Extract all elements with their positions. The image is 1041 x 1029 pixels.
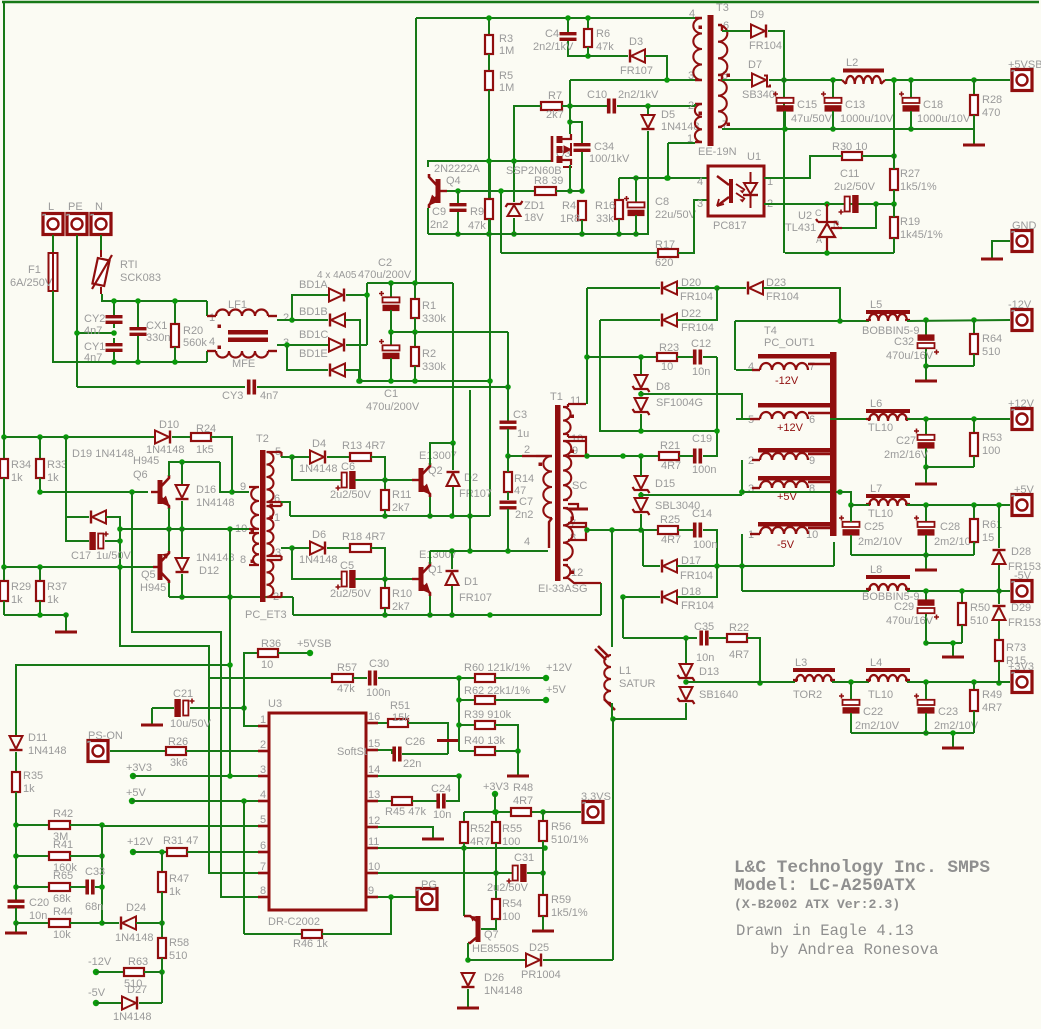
net stub +12V R60 <box>543 675 549 681</box>
svg-text:R16: R16 <box>595 200 615 212</box>
svg-text:-5V: -5V <box>88 987 106 999</box>
resistor R33 1k <box>39 437 41 459</box>
wire drive branch x=501 to R17 <box>500 191 502 253</box>
svg-text:510/1%: 510/1% <box>551 834 589 846</box>
connector -12V <box>1012 310 1032 331</box>
svg-text:4: 4 <box>260 789 266 801</box>
svg-text:L3: L3 <box>795 657 807 669</box>
wire ladder left column <box>15 825 17 900</box>
resistor R23 10 <box>657 353 677 361</box>
resistor R50 510 <box>961 591 963 603</box>
resistor R55 100 <box>495 812 497 822</box>
svg-text:R40 13k: R40 13k <box>464 735 505 747</box>
svg-text:1u: 1u <box>517 428 529 440</box>
svg-text:R2: R2 <box>422 348 436 360</box>
svg-text:2u2/50V: 2u2/50V <box>330 588 372 600</box>
svg-text:2: 2 <box>283 312 289 324</box>
svg-text:68n: 68n <box>85 901 103 913</box>
wire HV+ top rail <box>367 282 453 284</box>
svg-text:FR104: FR104 <box>681 600 714 612</box>
svg-text:SB340: SB340 <box>742 89 775 101</box>
svg-text:T4: T4 <box>764 325 777 337</box>
svg-text:R19: R19 <box>900 216 920 228</box>
svg-text:PE: PE <box>68 201 83 213</box>
connector +5V <box>1012 495 1032 516</box>
svg-text:EI-33ASG: EI-33ASG <box>538 583 588 595</box>
wire -5V bus to L8 <box>742 590 869 592</box>
resistor R16 33k <box>618 178 620 200</box>
resistor R2 330k <box>414 332 416 347</box>
svg-text:4R7: 4R7 <box>661 460 681 472</box>
svg-text:R51: R51 <box>390 700 410 712</box>
svg-text:1: 1 <box>209 312 215 324</box>
svg-text:1: 1 <box>274 512 280 524</box>
T1 pins 9/10 bracket <box>568 437 586 456</box>
svg-text:Model: LC-A250ATX: Model: LC-A250ATX <box>734 876 916 896</box>
svg-text:R6: R6 <box>596 28 610 40</box>
resistor R60 121k/1% <box>475 674 495 682</box>
fuse F1 6A/250V <box>49 253 58 291</box>
svg-text:R60 121k/1%: R60 121k/1% <box>464 662 530 674</box>
resistor R44 10k <box>13 920 19 926</box>
wire Q5 collector <box>168 583 170 597</box>
svg-text:10: 10 <box>661 361 673 373</box>
wire R56/C31 column to R59 <box>542 848 544 895</box>
svg-text:FR107: FR107 <box>620 65 653 77</box>
svg-text:R21: R21 <box>660 440 680 452</box>
svg-text:4: 4 <box>689 8 695 20</box>
diode D20 FR104 <box>663 282 677 295</box>
svg-text:(X-B2002 ATX Ver:2.3): (X-B2002 ATX Ver:2.3) <box>734 897 900 912</box>
svg-text:TL10: TL10 <box>868 689 893 701</box>
diode D12 1N4148 <box>181 529 183 558</box>
svg-text:-5V: -5V <box>777 539 795 551</box>
wire Q6 emitter <box>168 508 170 529</box>
wire +12V stub to R31 <box>133 851 167 853</box>
wire HV snubber column x=453 <box>452 283 454 443</box>
resistor R45 47k <box>378 800 392 802</box>
svg-text:SF1004G: SF1004G <box>656 397 703 409</box>
svg-text:-12V: -12V <box>775 375 799 387</box>
resistor R9 47k <box>488 161 490 199</box>
svg-text:R7: R7 <box>548 90 562 102</box>
resistor R34 1k <box>3 437 5 459</box>
svg-text:FR104: FR104 <box>680 570 713 582</box>
wire Q5 emitter up <box>168 529 170 551</box>
diode D26 1N4148 <box>462 973 475 986</box>
svg-text:R56: R56 <box>551 821 571 833</box>
svg-text:D15: D15 <box>655 478 675 490</box>
T1 pins 7/8 bracket <box>568 523 586 540</box>
wire C5 to base <box>355 578 416 580</box>
wire D13 mid to L3 bus <box>686 681 795 683</box>
svg-text:R27: R27 <box>900 168 920 180</box>
svg-text:L4: L4 <box>870 657 882 669</box>
wire U3 pin9 to PG <box>378 896 416 898</box>
svg-text:R55: R55 <box>502 823 522 835</box>
svg-text:Q5: Q5 <box>141 569 156 581</box>
svg-text:4R7: 4R7 <box>729 649 749 661</box>
svg-text:R18 4R7: R18 4R7 <box>342 531 385 543</box>
svg-text:R59: R59 <box>551 894 571 906</box>
wire L fuse to bottom filter rail <box>53 291 207 362</box>
capacitor C10 2n2/1kV <box>607 99 611 114</box>
wire R7 left to gate node <box>514 106 541 161</box>
diode D18 FR104 <box>623 596 660 598</box>
wire Q6 base column to U3 pin8 <box>132 492 270 897</box>
wire U3 pin14 to C24 <box>378 775 459 777</box>
svg-text:2: 2 <box>260 739 266 751</box>
wire R36 to +5VSB stub <box>278 652 309 654</box>
svg-text:R42: R42 <box>53 808 73 820</box>
svg-text:SB1640: SB1640 <box>699 689 738 701</box>
wire R8 to source/C34/R4 <box>556 190 582 192</box>
wire C27/R53 gnd <box>926 466 974 468</box>
wire T2 pin3 node <box>281 547 292 549</box>
wire Q4 base <box>447 190 581 192</box>
wire VSB ground rail <box>785 128 974 130</box>
resistor R64 510 <box>973 320 975 334</box>
wire +12V bus to L6 <box>830 418 867 420</box>
svg-text:R23: R23 <box>659 342 679 354</box>
svg-text:510: 510 <box>169 950 187 962</box>
svg-text:1k: 1k <box>169 886 181 898</box>
svg-text:C17: C17 <box>71 550 91 562</box>
ground C32 <box>925 366 927 380</box>
svg-text:R54: R54 <box>502 898 522 910</box>
svg-text:+3V3: +3V3 <box>126 762 152 774</box>
svg-text:R48: R48 <box>513 782 533 794</box>
capacitor C26 22n <box>378 750 392 754</box>
svg-text:2: 2 <box>688 100 694 112</box>
wire R18 to Q1 base node <box>371 548 385 579</box>
svg-text:C33: C33 <box>85 866 105 878</box>
svg-text:510: 510 <box>970 615 988 627</box>
svg-text:2m2/10V: 2m2/10V <box>934 720 979 732</box>
svg-text:10n: 10n <box>692 366 710 378</box>
svg-text:GND: GND <box>1012 220 1037 232</box>
svg-text:C30: C30 <box>369 658 389 670</box>
svg-text:CX1: CX1 <box>146 320 167 332</box>
svg-text:C24: C24 <box>431 783 451 795</box>
svg-text:R29: R29 <box>11 581 31 593</box>
svg-text:R35: R35 <box>23 770 43 782</box>
wire C15 column <box>783 31 785 253</box>
diode D16 1N4148 <box>181 462 183 485</box>
resistor R73 R15 <box>995 640 1003 661</box>
net stub +3V3 pin3 <box>130 773 136 779</box>
svg-text:1R8: 1R8 <box>560 213 580 225</box>
zener ZD1 18V <box>508 205 521 216</box>
wire halfbridge mid column x=470 <box>469 390 471 551</box>
wire U1 pin1 <box>764 156 816 178</box>
svg-text:R13 4R7: R13 4R7 <box>342 440 385 452</box>
capacitor C14 100n <box>678 529 694 531</box>
svg-text:47k: 47k <box>468 220 486 232</box>
svg-text:FR104: FR104 <box>766 291 799 303</box>
svg-text:330k: 330k <box>422 361 446 373</box>
svg-text:D12: D12 <box>199 565 219 577</box>
capacitor C11 2u2/50V <box>845 197 850 212</box>
svg-text:C23: C23 <box>938 706 958 718</box>
wire U1 pin2 bus <box>764 203 894 205</box>
resistor R30 10 <box>842 152 862 160</box>
svg-text:FR107: FR107 <box>459 488 492 500</box>
svg-text:C25: C25 <box>864 521 884 533</box>
svg-text:1k45/1%: 1k45/1% <box>900 229 943 241</box>
resistor R52 4R7 <box>463 812 465 822</box>
diode D24 1N4148 <box>102 922 119 924</box>
svg-text:R28: R28 <box>982 94 1002 106</box>
svg-text:C26: C26 <box>405 736 425 748</box>
svg-text:BD1E: BD1E <box>299 348 328 360</box>
wire left HV- bus <box>3 2 5 615</box>
wire T2 pin2 rail <box>169 596 293 598</box>
svg-text:L1: L1 <box>619 665 631 677</box>
wire Q1 bottom rail <box>293 614 601 616</box>
svg-text:C5: C5 <box>340 560 354 572</box>
svg-text:R26: R26 <box>168 736 188 748</box>
net stub +3V3 sense <box>492 791 498 797</box>
svg-text:PC_ET3: PC_ET3 <box>245 609 287 621</box>
svg-text:10u/50V: 10u/50V <box>170 718 212 730</box>
svg-text:14: 14 <box>368 764 380 776</box>
wire GND pad <box>992 241 1010 258</box>
diode D17 FR104 <box>663 560 677 573</box>
svg-text:-12V: -12V <box>1008 299 1032 311</box>
svg-text:1k5/1%: 1k5/1% <box>900 181 937 193</box>
svg-text:2n2/1kV: 2n2/1kV <box>533 41 574 53</box>
resistor R25 4R7 <box>658 526 678 534</box>
svg-text:C28: C28 <box>940 521 960 533</box>
svg-text:2u2/50V: 2u2/50V <box>487 882 529 894</box>
svg-text:FR104: FR104 <box>680 291 713 303</box>
svg-text:C12: C12 <box>691 338 711 350</box>
connector N <box>91 214 111 235</box>
svg-text:L: L <box>48 201 54 213</box>
wire R25 bus y=530 <box>587 529 658 531</box>
svg-text:1N4148: 1N4148 <box>661 121 700 133</box>
svg-text:D22: D22 <box>681 308 701 320</box>
ground R51 <box>437 739 459 742</box>
wire D15 top column <box>640 456 642 476</box>
capacitor C23 2m2/10V <box>925 682 927 700</box>
diode D6 1N4148 <box>292 547 310 549</box>
svg-text:SCK083: SCK083 <box>120 272 161 284</box>
svg-text:U1: U1 <box>747 151 761 163</box>
svg-text:C27: C27 <box>896 435 916 447</box>
wire T3 pin6 to D9 <box>722 30 751 32</box>
svg-text:10n: 10n <box>433 809 451 821</box>
svg-text:D24: D24 <box>126 902 146 914</box>
wire D22 snubber loop <box>600 320 717 431</box>
svg-text:R33: R33 <box>47 459 67 471</box>
resistor R49 4R7 <box>973 682 975 690</box>
svg-text:1N4148: 1N4148 <box>299 463 338 475</box>
svg-text:C8: C8 <box>655 196 669 208</box>
svg-text:L6: L6 <box>870 398 882 410</box>
svg-text:R1: R1 <box>422 300 436 312</box>
svg-text:C2: C2 <box>378 257 392 269</box>
svg-text:C15: C15 <box>797 99 817 111</box>
svg-text:3: 3 <box>275 547 281 559</box>
wire pin9/10 to R21 bus <box>584 453 590 459</box>
resistor R21 4R7 <box>659 452 679 460</box>
svg-text:+5V: +5V <box>126 787 147 799</box>
svg-text:560k: 560k <box>183 337 207 349</box>
wire Q5 base rail y=567 <box>4 566 153 568</box>
capacitor C8 22u/50V <box>635 178 637 202</box>
svg-text:R3: R3 <box>499 33 513 45</box>
capacitor C13 1000u/10V <box>832 80 834 97</box>
resistor R7 2k7 <box>541 102 562 110</box>
connector L <box>43 214 63 235</box>
resistor R48 4R7 <box>511 808 531 816</box>
resistor R39 910k <box>459 724 475 726</box>
wire D20 bus <box>587 287 660 289</box>
svg-text:2k7: 2k7 <box>392 502 410 514</box>
wire U2/R19 bottom <box>785 252 894 254</box>
svg-text:6A/250V: 6A/250V <box>10 277 53 289</box>
wire Q6 collector <box>169 462 220 476</box>
wire R21 bus y=456 <box>587 455 659 457</box>
resistor R4 1R8 <box>578 201 586 220</box>
svg-text:D19 1N4148: D19 1N4148 <box>72 448 134 460</box>
svg-text:15k: 15k <box>392 712 410 724</box>
diode D22 FR104 <box>600 319 660 321</box>
svg-text:C20: C20 <box>29 897 49 909</box>
svg-text:1N4148: 1N4148 <box>113 1011 152 1023</box>
svg-text:Q6: Q6 <box>133 469 148 481</box>
svg-text:R34: R34 <box>11 459 31 471</box>
svg-text:22n: 22n <box>403 758 421 770</box>
svg-text:15: 15 <box>368 738 380 750</box>
ground VSB <box>963 144 985 147</box>
svg-text:R4: R4 <box>562 200 576 212</box>
capacitor C24 10n <box>412 800 437 802</box>
svg-text:10: 10 <box>368 861 380 873</box>
svg-text:6: 6 <box>809 414 815 426</box>
svg-text:4R7: 4R7 <box>470 836 490 848</box>
svg-text:-12V: -12V <box>88 956 112 968</box>
svg-text:R49: R49 <box>982 689 1002 701</box>
svg-text:+5V: +5V <box>1014 484 1035 496</box>
wire T1 pin11 to D20 bus <box>586 288 588 404</box>
svg-text:R37: R37 <box>47 581 67 593</box>
svg-text:L8: L8 <box>870 564 882 576</box>
wire R63 to D27 <box>161 972 163 1003</box>
capacitor C18 1000u/10V <box>910 80 912 97</box>
svg-text:2m2/10V: 2m2/10V <box>858 536 903 548</box>
svg-text:D13: D13 <box>699 666 719 678</box>
svg-text:12: 12 <box>368 815 380 827</box>
svg-text:PR1004: PR1004 <box>521 969 561 981</box>
svg-text:HE8550S: HE8550S <box>472 943 519 955</box>
svg-text:R39 910k: R39 910k <box>464 709 512 721</box>
svg-text:620: 620 <box>655 257 673 269</box>
resistor R59 1k5/1% <box>539 895 547 916</box>
svg-text:-5V: -5V <box>1014 570 1032 582</box>
wire T4 pin1 to -5V rect bus <box>741 534 743 591</box>
svg-text:PS-ON: PS-ON <box>88 730 123 742</box>
svg-text:3.3VS: 3.3VS <box>581 791 611 803</box>
svg-text:R17: R17 <box>655 239 675 251</box>
resistor R51 15k <box>378 722 388 724</box>
svg-text:4n7: 4n7 <box>260 390 278 402</box>
svg-text:1000u/10V: 1000u/10V <box>917 113 971 125</box>
svg-text:10: 10 <box>571 433 583 445</box>
svg-text:TL10: TL10 <box>868 508 893 520</box>
wire D19 column to U3 pin7 <box>120 567 270 873</box>
svg-text:47k: 47k <box>596 41 614 53</box>
net stub -5V <box>93 1000 99 1006</box>
svg-text:D4: D4 <box>312 438 326 450</box>
diode D1 FR107 <box>451 551 453 569</box>
wire R7 right to C10 <box>562 105 608 107</box>
wire pin2 to bottom rail <box>292 597 294 615</box>
wire T2 pin5 node <box>281 456 292 458</box>
wire pin10 column down <box>229 529 231 597</box>
svg-text:R64: R64 <box>982 333 1002 345</box>
svg-text:D8: D8 <box>656 381 670 393</box>
svg-text:4R7: 4R7 <box>982 702 1002 714</box>
svg-text:C: C <box>815 208 822 218</box>
svg-text:BD1C: BD1C <box>299 329 328 341</box>
svg-text:1k: 1k <box>11 472 23 484</box>
svg-text:11: 11 <box>570 395 581 407</box>
wire HV mid rail <box>391 331 508 333</box>
wire +5V gnd rail <box>851 554 974 556</box>
svg-text:R50: R50 <box>970 602 990 614</box>
svg-text:D29: D29 <box>1011 602 1031 614</box>
wire Q7 collector <box>467 943 469 960</box>
wire Q4 collector <box>428 161 552 167</box>
capacitor C28 2m2/10V <box>925 505 927 522</box>
capacitor C35 10n <box>623 637 697 639</box>
svg-text:2n2/1kV: 2n2/1kV <box>618 89 659 101</box>
svg-text:C3: C3 <box>513 409 527 421</box>
wire bottom rail to T1 pin12 <box>600 583 602 615</box>
svg-text:1k: 1k <box>47 472 59 484</box>
resistor R5 1M <box>488 54 490 71</box>
svg-text:C21: C21 <box>173 688 193 700</box>
svg-text:1: 1 <box>687 133 693 145</box>
resistor R27 1k5/1% <box>890 169 898 190</box>
diode D10 1N4148 <box>155 431 169 444</box>
resistor R22 4R7 <box>727 634 747 642</box>
svg-text:+5VSB: +5VSB <box>297 638 332 650</box>
wire D23 to T4 box <box>763 288 840 321</box>
wire Q7 base from R54 <box>481 928 496 930</box>
capacitor C31 2u2/50V <box>496 872 512 874</box>
svg-text:33k: 33k <box>596 213 614 225</box>
svg-text:6: 6 <box>260 840 266 852</box>
ground C29 <box>952 643 954 656</box>
resistor R61 15 <box>973 505 975 519</box>
capacitor C1 470u/200V <box>390 332 392 345</box>
wire R24 to T2 pin9 <box>211 437 232 492</box>
svg-text:C29: C29 <box>894 601 914 613</box>
ground R29/R37 <box>65 615 67 631</box>
wire U3 pin12 gnd <box>378 827 433 838</box>
svg-text:U2: U2 <box>798 210 812 222</box>
wire PS-ON to R26 <box>110 750 166 752</box>
capacitor C30 100n <box>353 677 367 679</box>
svg-text:2u2/50V: 2u2/50V <box>330 489 372 501</box>
ground C22/C23 <box>952 733 954 747</box>
svg-text:R9: R9 <box>470 206 484 218</box>
svg-text:BD1B: BD1B <box>299 306 328 318</box>
